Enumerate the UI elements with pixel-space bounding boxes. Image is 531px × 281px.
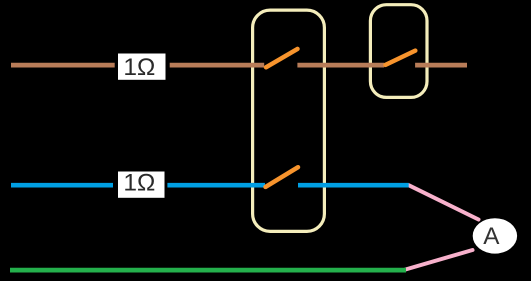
svg-text:1Ω: 1Ω [123, 170, 155, 197]
svg-text:1Ω: 1Ω [123, 54, 155, 81]
svg-text:A: A [483, 223, 500, 250]
